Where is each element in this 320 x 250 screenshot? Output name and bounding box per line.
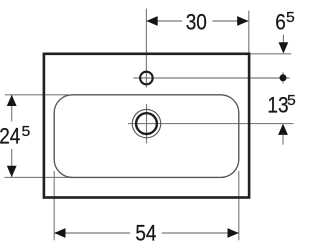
arrow right of dim 54 — [228, 228, 239, 238]
arrow right of dim 30 — [237, 16, 248, 26]
svg-text:24: 24 — [0, 124, 20, 149]
drain outer circle — [132, 109, 160, 137]
extension line: tap hole horizontal axis to right reference dot — [134, 77, 290, 79]
label 30 — [186, 10, 207, 35]
extension line: drain vertical axis — [146, 104, 148, 144]
arrow up of dim 24.5 — [7, 95, 17, 106]
tap hole — [140, 72, 153, 85]
dim 6.5 stem — [282, 35, 284, 44]
svg-text:5: 5 — [22, 124, 31, 140]
dimension line 24.5 — [11, 95, 13, 122]
svg-text:54: 54 — [135, 221, 156, 246]
extension line: basin top level for dim 24.5 — [5, 94, 68, 96]
extension line: top edge level for dim 6.5 — [249, 53, 291, 55]
dimension line 30 — [146, 20, 182, 22]
drain inner ring — [136, 113, 157, 134]
dimension line 54 — [54, 232, 130, 234]
svg-text:6: 6 — [275, 10, 286, 35]
extension line: left end of dim 54 — [53, 171, 55, 240]
extension line: basin bottom level for dim 24.5 — [5, 176, 72, 178]
svg-text:30: 30 — [186, 10, 207, 35]
arrow up of dim 13.5 — [278, 124, 288, 135]
extension line: drain horizontal axis to dim 13.5 — [128, 123, 294, 125]
washbasin outer rim (top view) — [44, 54, 249, 198]
reference dot of dim 13.5 — [280, 74, 287, 81]
reference dot vertical stub — [282, 72, 284, 83]
label 13.5 — [267, 93, 288, 118]
svg-text:5: 5 — [287, 92, 296, 108]
label 54 — [135, 221, 156, 246]
svg-text:13: 13 — [267, 93, 288, 118]
arrow left of dim 54 — [54, 228, 65, 238]
svg-text:5: 5 — [286, 10, 295, 26]
extension line: right end of dim 54 — [238, 171, 240, 240]
basin inner bowl rounded outline — [54, 95, 239, 178]
extension line: tap centreline vertical (left end of dim 30) — [145, 9, 147, 88]
arrow down of dim 6.5 — [279, 42, 289, 53]
label 24.5 — [0, 124, 20, 149]
extension line: right end of dim 30 — [248, 11, 250, 55]
dim 13.5 stem — [282, 135, 284, 145]
arrow down of dim 24.5 — [7, 166, 17, 177]
arrow left of dim 30 — [146, 16, 157, 26]
label 6.5 — [275, 10, 286, 35]
